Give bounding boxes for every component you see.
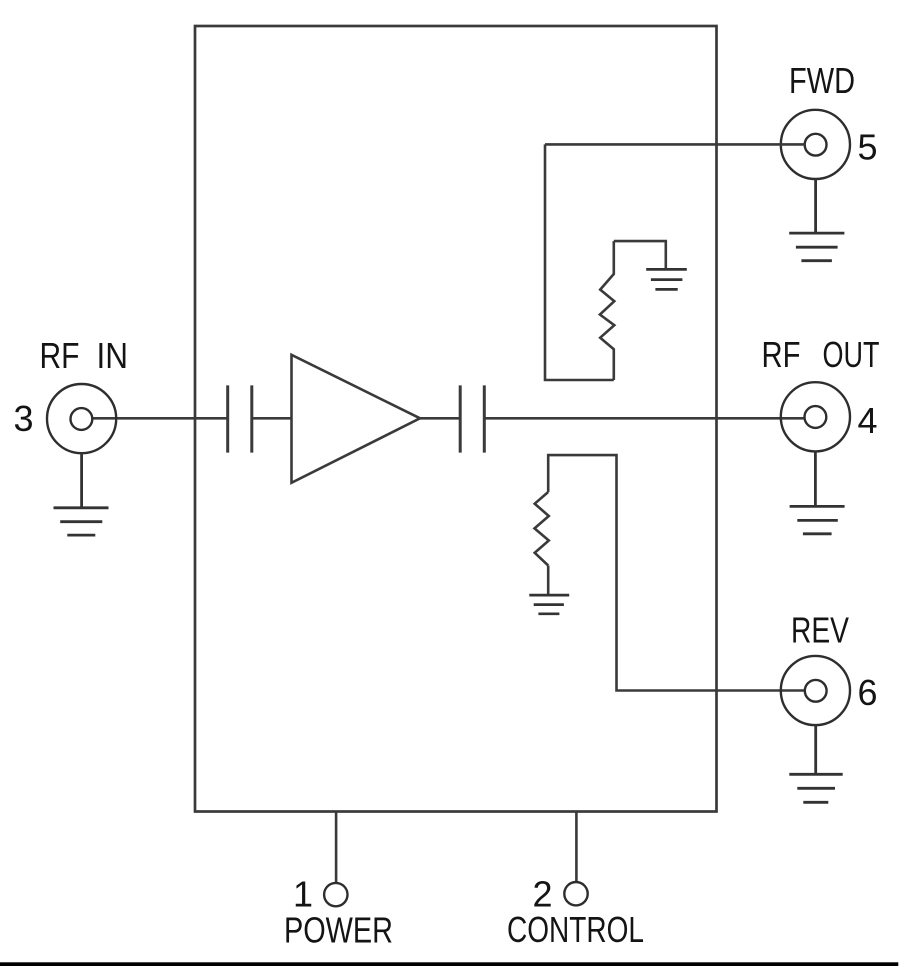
wire C1 to amplifier — [252, 417, 292, 420]
svg-text:CONTROL: CONTROL — [507, 909, 644, 950]
svg-text:5: 5 — [858, 127, 878, 168]
svg-text:POWER: POWER — [284, 910, 393, 951]
capacitor C2 — [460, 385, 484, 452]
device outline box — [195, 26, 717, 812]
svg-text:OUT: OUT — [823, 334, 880, 375]
wire pin 1 POWER stub — [335, 812, 338, 884]
pin 1 pad circle — [324, 883, 347, 906]
svg-text:1: 1 — [293, 874, 313, 915]
connector J4 RF OUT — [781, 382, 850, 451]
ground (RF OUT) — [790, 451, 845, 533]
wire amplifier to capacitor C2 — [420, 417, 460, 420]
wire forward-coupler loop — [545, 144, 614, 380]
svg-text:3: 3 — [14, 398, 34, 439]
connector J5 FWD — [781, 110, 850, 179]
svg-text:4: 4 — [858, 400, 878, 441]
amplifier A1 — [292, 355, 421, 483]
resistor R2 — [535, 492, 549, 566]
wire R2 to its ground — [547, 566, 550, 596]
svg-text:RF: RF — [40, 335, 80, 376]
svg-text:RF: RF — [762, 334, 801, 375]
wire FWD to coupler — [545, 143, 805, 146]
wire pin 2 CONTROL stub — [575, 812, 578, 883]
svg-text:REV: REV — [791, 610, 849, 651]
wire reverse-coupler loop — [548, 455, 805, 690]
wire C2 to RF OUT connector — [484, 417, 805, 420]
wire RF IN to capacitor C1 — [92, 417, 228, 420]
pin 2 pad circle — [564, 882, 587, 905]
ground (FWD) — [789, 179, 844, 261]
ground (R2, small) — [529, 595, 569, 614]
capacitor C1 — [228, 385, 252, 452]
svg-text:FWD: FWD — [789, 60, 855, 101]
bottom black bar — [0, 962, 898, 966]
ground (RF IN) — [54, 453, 109, 535]
ground (R1, small) — [646, 269, 687, 289]
wire R1 to its ground — [614, 241, 666, 269]
svg-text:IN: IN — [97, 335, 129, 376]
ground (REV) — [789, 725, 842, 802]
connector J6 REV — [781, 656, 850, 725]
connector J3 RF IN — [47, 384, 116, 453]
resistor R1 — [600, 241, 614, 380]
svg-text:6: 6 — [858, 672, 878, 713]
